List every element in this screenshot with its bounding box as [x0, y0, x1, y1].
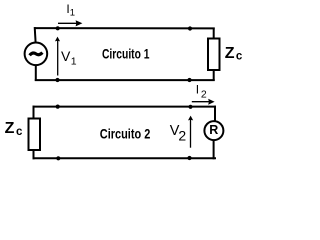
impedance Zc source-side box [29, 119, 41, 151]
svg-text:Z: Z [225, 45, 235, 62]
wire: circuit2 top conductor [33, 106, 217, 108]
wire: circuit2 left lower stub [33, 150, 35, 159]
svg-text:1: 1 [70, 8, 75, 19]
label Zc (bottom) [5, 120, 23, 138]
svg-text:I: I [196, 82, 199, 96]
node: circuit2 top-left terminal [56, 105, 60, 109]
impedance Zc load box [208, 39, 220, 71]
label V1 [61, 48, 77, 67]
wire: circuit2 right lower stub [213, 140, 215, 159]
svg-text:c: c [16, 126, 23, 138]
wire: circuit1 top conductor [34, 27, 214, 29]
label I2 [196, 82, 207, 100]
node: circuit1 top-left terminal [56, 26, 60, 30]
svg-text:c: c [236, 51, 243, 63]
svg-text:V: V [61, 48, 71, 64]
wire: circuit1 right lower stub [213, 70, 215, 81]
node: circuit2 bottom-right terminal [187, 156, 191, 160]
AC voltage source [25, 43, 48, 66]
label V2 [170, 123, 187, 144]
wire: circuit1 bottom conductor [35, 79, 215, 81]
svg-text:Circuito 1: Circuito 1 [102, 47, 150, 62]
voltage arrow V2 [188, 116, 193, 148]
current arrow I1 [58, 20, 82, 26]
node: circuit1 bottom-right terminal [187, 78, 191, 82]
svg-text:R: R [209, 123, 218, 137]
node: circuit1 bottom-left terminal [55, 78, 59, 82]
svg-text:2: 2 [201, 88, 207, 100]
wire: circuit1 left lower segment [35, 65, 37, 81]
receiver R (meter circle) [204, 121, 223, 140]
node: circuit2 top-right terminal [188, 105, 192, 109]
voltage arrow V1 [55, 37, 60, 76]
svg-text:2: 2 [178, 127, 186, 143]
svg-text:Circuito 2: Circuito 2 [100, 127, 151, 142]
node: circuit2 bottom-left terminal [56, 156, 60, 160]
svg-text:Z: Z [5, 120, 15, 137]
wire: circuit2 right upper stub [214, 106, 216, 121]
label I1 [66, 2, 75, 18]
node: circuit1 top-right terminal [188, 26, 192, 30]
current arrow I2 [192, 99, 215, 105]
wire: circuit1 right upper stub [213, 28, 215, 40]
wire: circuit2 left upper stub [33, 106, 35, 119]
wire: circuit1 left upper segment [34, 27, 37, 42]
svg-text:1: 1 [71, 55, 77, 67]
label Zc (top load) [225, 45, 243, 63]
wire: circuit2 bottom conductor [33, 157, 217, 159]
